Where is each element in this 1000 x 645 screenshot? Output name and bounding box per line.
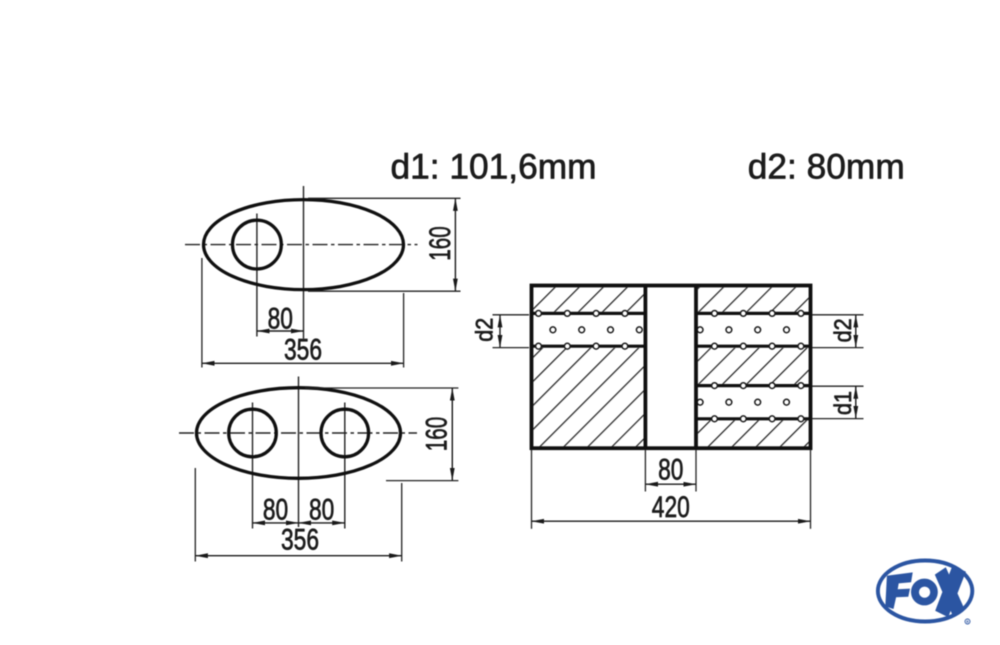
oval body outline xyxy=(204,200,404,290)
perforation dots left d2 band xyxy=(536,311,643,350)
inner wall line left lower xyxy=(532,345,646,348)
extension line top 160 xyxy=(308,197,461,199)
hatch right bottom band xyxy=(698,421,809,447)
pipe channel left wall xyxy=(644,286,648,449)
extension line left 356 xyxy=(201,258,203,368)
svg-text:160: 160 xyxy=(424,226,457,260)
svg-text:160: 160 xyxy=(421,417,454,451)
vertical center line xyxy=(298,377,300,528)
extension line bottom 160 xyxy=(308,290,461,292)
extension line d1 right top xyxy=(812,385,864,387)
inner wall line right d1 bottom xyxy=(696,417,810,420)
body fill xyxy=(532,286,811,449)
extension line d2 right bottom xyxy=(812,347,864,349)
pipe channel right wall xyxy=(694,286,698,449)
registered mark xyxy=(965,619,970,624)
logo oval ring xyxy=(878,561,972,622)
extension line bottom 160 xyxy=(386,480,458,482)
svg-text:d2: d2 xyxy=(830,318,857,342)
svg-text:420: 420 xyxy=(652,491,690,524)
extension line right 356 xyxy=(403,293,405,368)
dimension 80 left xyxy=(253,522,299,524)
inner wall line right d2 top xyxy=(696,312,810,315)
oval body outline xyxy=(197,388,401,479)
right hole center line xyxy=(344,403,346,529)
horizontal center line xyxy=(179,432,417,434)
svg-text:80: 80 xyxy=(268,303,293,336)
svg-text:d2: 80mm: d2: 80mm xyxy=(748,148,905,187)
svg-text:R: R xyxy=(966,620,969,624)
extension line top 160 xyxy=(305,387,458,389)
left hole xyxy=(229,409,277,457)
hatch left top band xyxy=(533,287,643,311)
dimension 160 xyxy=(451,388,453,481)
hole center line xyxy=(256,214,258,337)
svg-text:356: 356 xyxy=(281,524,319,557)
hatch right top band xyxy=(698,287,809,311)
extension line 80 left xyxy=(644,450,646,492)
dimension 356 xyxy=(195,555,401,557)
horizontal center line xyxy=(185,244,418,246)
svg-text:d1: 101,6mm: d1: 101,6mm xyxy=(391,148,597,187)
dimension 80 right xyxy=(299,522,345,524)
letter X stroke 2 xyxy=(935,566,966,617)
letter F xyxy=(885,572,912,609)
perforation dots right d2 band xyxy=(697,311,804,350)
extension line 80 right xyxy=(695,450,697,492)
letter O xyxy=(911,579,938,606)
hatch left lower block xyxy=(533,348,643,447)
svg-text:d1: d1 xyxy=(830,391,857,415)
svg-text:80: 80 xyxy=(263,494,288,527)
perforation dots right d1 band xyxy=(697,383,804,422)
inner wall line right d2 bottom xyxy=(696,345,810,348)
dimension 356 xyxy=(202,362,404,364)
svg-text:80: 80 xyxy=(658,454,683,487)
svg-text:356: 356 xyxy=(284,334,322,367)
dimension 80 pipe xyxy=(645,483,696,485)
left hole center line xyxy=(252,403,254,529)
extension line 420 right xyxy=(810,450,812,529)
extension line 420 left xyxy=(531,450,533,529)
letter X stroke 1 xyxy=(935,567,964,616)
hole d1 xyxy=(233,220,282,269)
hatch right middle band xyxy=(698,348,809,384)
inner wall line left upper xyxy=(532,312,646,315)
extension line d1 right bottom xyxy=(812,418,864,420)
dimension 80 xyxy=(257,330,304,332)
right hole xyxy=(321,409,369,457)
dimension 160 xyxy=(454,198,456,291)
extension line right 356 xyxy=(401,483,403,562)
inner wall line right d1 top xyxy=(696,384,810,387)
extension line left 356 xyxy=(194,468,196,562)
dimension d2 left xyxy=(499,315,501,348)
dimension d1 right xyxy=(855,386,857,418)
svg-text:80: 80 xyxy=(309,494,334,527)
svg-text:d2: d2 xyxy=(471,318,498,342)
dimension d2 right xyxy=(855,315,857,348)
extension line d2 right top xyxy=(812,314,864,316)
dimension 420 xyxy=(532,520,811,522)
vertical center line xyxy=(303,186,305,339)
extension line d2 left top xyxy=(493,314,530,316)
body outline xyxy=(532,286,811,449)
extension line d2 left bottom xyxy=(493,347,530,349)
